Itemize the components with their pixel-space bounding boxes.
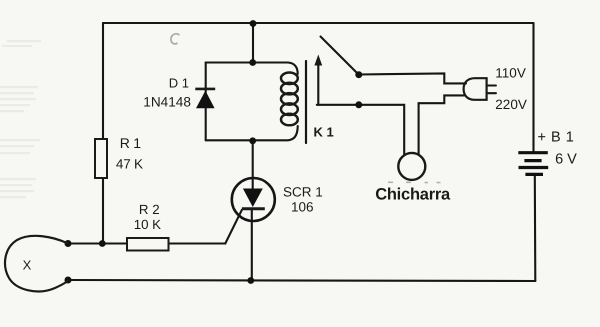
- svg-text:10 K: 10 K: [134, 217, 161, 232]
- svg-text:+ B 1: + B 1: [538, 130, 575, 146]
- svg-text:1N4148: 1N4148: [143, 95, 191, 110]
- svg-text:K 1: K 1: [314, 125, 334, 140]
- svg-text:R 1: R 1: [120, 135, 141, 151]
- svg-text:Chicharra: Chicharra: [375, 185, 451, 203]
- svg-text:SCR 1: SCR 1: [283, 184, 323, 199]
- svg-text:220V: 220V: [495, 97, 527, 112]
- svg-text:R 2: R 2: [139, 202, 160, 217]
- svg-text:6 V: 6 V: [555, 152, 577, 168]
- svg-text:X: X: [23, 258, 32, 273]
- svg-text:106: 106: [291, 200, 314, 215]
- svg-text:47 K: 47 K: [116, 157, 143, 172]
- svg-text:110V: 110V: [495, 66, 526, 81]
- svg-text:D 1: D 1: [169, 76, 189, 91]
